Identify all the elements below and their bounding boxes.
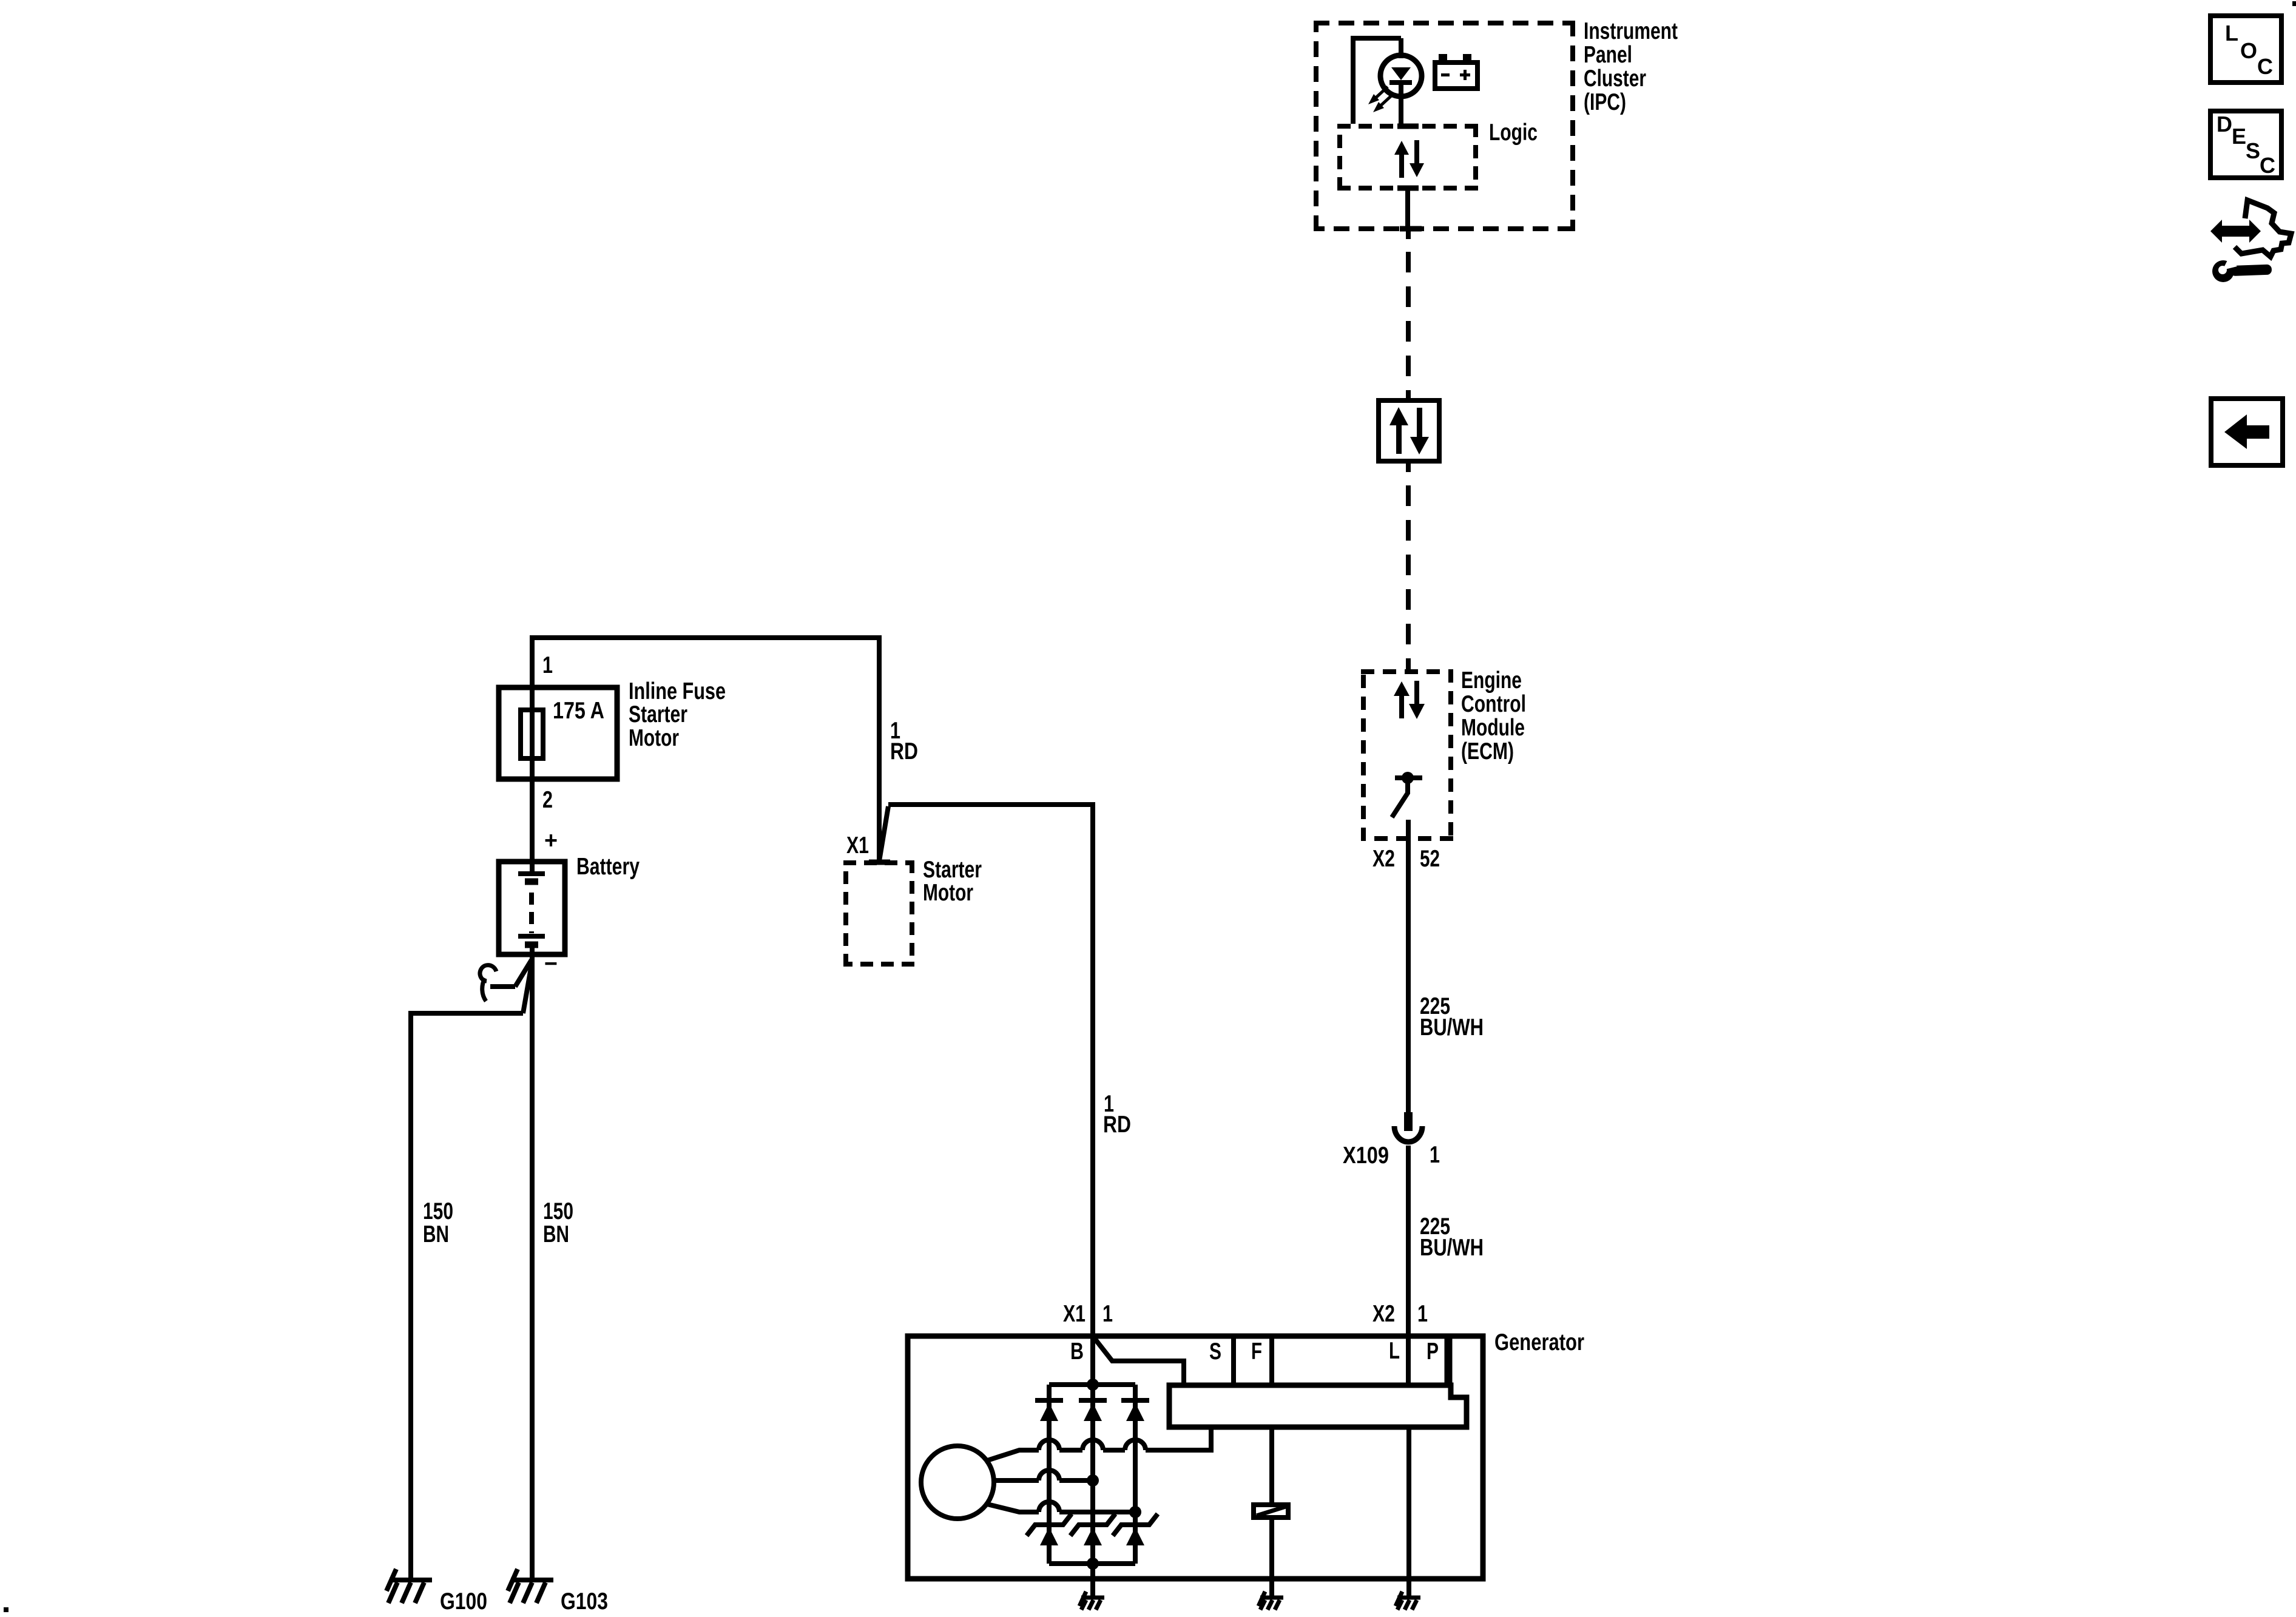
- svg-text:F: F: [1251, 1338, 1262, 1365]
- zener diode Z3 bar with bent ends: [1113, 1514, 1158, 1536]
- serial data arrows inside ECM: [1394, 681, 1425, 719]
- terminal bar at Logic box top: [1397, 124, 1419, 129]
- module box: Engine Control Module (ECM), dashed outline: [1361, 669, 1453, 841]
- wire: 225 BU/WH from ECM X2-52 to connector X109: [1406, 820, 1411, 1113]
- nav icon: DESC letters: [2217, 112, 2275, 178]
- label: X1 1 pin labels at generator B: [1063, 1301, 1113, 1327]
- label: wire 1 RD upper: [890, 718, 918, 765]
- node: bottom bus junction: [1087, 1558, 1099, 1570]
- stator winding lead middle: [993, 1478, 1039, 1483]
- diode D3 cathode bar: [1121, 1398, 1149, 1403]
- rectifier column 1: [1047, 1385, 1052, 1564]
- label: 175 A: [553, 698, 604, 724]
- svg-text:175 A: 175 A: [553, 698, 604, 724]
- ground symbol under rectifier: [1079, 1592, 1104, 1610]
- wire: 225 BU/WH from X109 to generator X2-1: [1406, 1146, 1411, 1336]
- stator winding hump phase1 col1: [1039, 1440, 1059, 1450]
- label: Starter Motor: [923, 857, 982, 906]
- serial data arrows inside translator box: [1389, 407, 1429, 454]
- wire: phase1 between humps 2: [1103, 1448, 1125, 1453]
- label: wire 225 BU/WH upper: [1420, 993, 1484, 1041]
- wire: IPC internal loop left leg: [1353, 38, 1401, 124]
- diode D2 cathode bar: [1079, 1398, 1107, 1403]
- serial data arrows inside Logic box: [1394, 140, 1424, 178]
- svg-text:1: 1: [542, 652, 553, 678]
- svg-text:Battery: Battery: [576, 854, 640, 880]
- nav icon: LOC box: [2210, 16, 2281, 83]
- ECM driver switch: lever: [1392, 780, 1408, 817]
- indicator LED circle: [1380, 55, 1422, 96]
- terminal divider right of S: [1231, 1336, 1236, 1385]
- page corner mark top right: [2292, 1, 2296, 6]
- nav icon: connector outline shape: [2235, 200, 2291, 257]
- wire: run to generator B and down: [888, 805, 1093, 1336]
- svg-text:Starter: Starter: [629, 701, 687, 727]
- svg-text:C: C: [2257, 54, 2273, 79]
- wire: through fuse: [530, 687, 535, 874]
- nav icon: DESC box: [2210, 111, 2281, 178]
- rectifier top bus bar: [1049, 1382, 1135, 1387]
- ECM driver switch: junction dot: [1402, 772, 1414, 784]
- label: terminal B: [1070, 1338, 1084, 1365]
- wire: battery negative down to G103: [530, 954, 535, 1580]
- svg-text:52: 52: [1420, 846, 1440, 872]
- svg-text:Panel: Panel: [1584, 42, 1632, 68]
- wire: logic box to IPC edge: [1405, 188, 1410, 229]
- svg-text:Inline Fuse: Inline Fuse: [629, 678, 726, 704]
- diode D1 triangle: [1040, 1403, 1058, 1421]
- svg-text:(ECM): (ECM): [1461, 738, 1514, 765]
- rectifier column 2: [1090, 1385, 1095, 1564]
- label: X1 at starter motor: [846, 832, 869, 859]
- label: Generator: [1494, 1329, 1584, 1355]
- ground strap bar: [490, 984, 515, 989]
- svg-text:S: S: [2246, 138, 2260, 163]
- in-line connector X109: male pin: [1404, 1112, 1413, 1131]
- battery cell plates: [518, 874, 545, 945]
- rectifier bottom bus bar: [1049, 1561, 1135, 1566]
- label: wire 1 RD lower: [1103, 1091, 1131, 1138]
- zener diode Z2 bar with bent ends: [1070, 1514, 1115, 1536]
- node: phase3 col3 junction: [1129, 1506, 1141, 1518]
- svg-text:B: B: [1070, 1338, 1084, 1365]
- module box: Starter Motor, dashed outline: [843, 860, 914, 967]
- svg-text:1: 1: [1417, 1301, 1428, 1327]
- stator winding hump phase3 col1: [1039, 1502, 1059, 1512]
- indicator LED diode triangle and cathode bar: [1389, 67, 1412, 85]
- zener diode Z2 triangle: [1084, 1527, 1102, 1545]
- svg-text:C: C: [2260, 153, 2275, 178]
- rectifier column 3: [1133, 1385, 1138, 1564]
- diode D2 triangle: [1084, 1403, 1102, 1421]
- label: wire 150 BN right: [543, 1198, 573, 1247]
- zener diode Z3 triangle: [1126, 1527, 1144, 1545]
- stator winding lead bottom: [987, 1504, 1039, 1512]
- svg-text:G100: G100: [440, 1588, 487, 1615]
- wire: serial data link translator to ECM, dashed: [1406, 485, 1411, 669]
- svg-text:X2: X2: [1373, 846, 1395, 872]
- ground symbol under field coil: [1258, 1592, 1283, 1610]
- svg-text:Engine: Engine: [1461, 667, 1522, 694]
- sub box: Logic, dashed outline: [1337, 124, 1478, 191]
- wire stub below IPC: [1406, 229, 1411, 239]
- terminal divider right of F: [1269, 1336, 1274, 1385]
- svg-text:Cluster: Cluster: [1584, 66, 1646, 92]
- B sense switch lever to regulator: [1095, 1338, 1184, 1385]
- diode D1 cathode bar: [1035, 1398, 1063, 1403]
- wire: field coil to ground: [1269, 1517, 1274, 1598]
- svg-text:Generator: Generator: [1494, 1329, 1584, 1355]
- in-line connector X109: female cup: [1394, 1126, 1422, 1142]
- label: Battery: [576, 854, 640, 880]
- LED light ray arrows: [1372, 87, 1393, 109]
- nav icon: harness-to-tools double arrow: [2210, 220, 2261, 243]
- svg-text:BN: BN: [423, 1221, 449, 1247]
- wire: battery feed top run: [532, 638, 879, 861]
- wire: serial data link IPC to translator box, dashed: [1406, 252, 1411, 398]
- label: wire 225 BU/WH lower: [1420, 1214, 1484, 1261]
- nav icon: wrench: [2212, 260, 2272, 282]
- label: Logic: [1489, 120, 1538, 146]
- svg-text:150: 150: [543, 1198, 573, 1224]
- svg-text:X109: X109: [1343, 1143, 1389, 1169]
- svg-text:(IPC): (IPC): [1584, 89, 1626, 115]
- battery box: [499, 862, 565, 954]
- svg-text:O: O: [2240, 38, 2257, 63]
- wire: phase2 to col2: [1059, 1478, 1093, 1483]
- label: battery minus: [544, 951, 558, 977]
- node: B junction on top bus: [1087, 1379, 1099, 1391]
- svg-text:Module: Module: [1461, 715, 1525, 741]
- wire: B terminal into rectifier bridge: [1090, 1336, 1095, 1385]
- wire stub below translator box: [1406, 464, 1411, 472]
- svg-text:Motor: Motor: [923, 880, 973, 906]
- ground G100 symbol: [387, 1569, 432, 1603]
- label: battery plus: [544, 828, 558, 854]
- ground strap diagonal to battery negative: [515, 960, 532, 987]
- wire: phase1 to regulator sense: [1146, 1427, 1211, 1450]
- label: terminal S: [1209, 1338, 1221, 1365]
- svg-text:2: 2: [542, 787, 553, 813]
- battery telltale symbol in IPC: [1435, 62, 1477, 89]
- svg-text:Motor: Motor: [629, 725, 679, 751]
- serial data translator box: [1379, 400, 1439, 461]
- svg-text:RD: RD: [1103, 1112, 1131, 1138]
- svg-text:−: −: [544, 951, 558, 977]
- svg-text:BU/WH: BU/WH: [1420, 1014, 1484, 1041]
- svg-text:Logic: Logic: [1489, 120, 1538, 146]
- inline fuse block box: [499, 687, 617, 779]
- wire: LED anode lead: [1399, 38, 1403, 58]
- svg-text:X1: X1: [1063, 1301, 1086, 1327]
- zener diode Z1 bar with bent ends: [1027, 1514, 1072, 1536]
- label: G100: [440, 1588, 487, 1615]
- wire: branch diagonal from starter X1 to generator feed: [879, 806, 888, 861]
- label: wire 150 BN left: [423, 1198, 453, 1247]
- label: Engine Control Module (ECM): [1461, 667, 1526, 765]
- label: X2 1 pin labels at generator: [1373, 1301, 1428, 1327]
- wire: branch diagonal to left ground run: [523, 961, 532, 1013]
- wire: LED cathode lead to logic box: [1399, 85, 1403, 126]
- zener diode Z1 triangle: [1040, 1527, 1058, 1545]
- module box: Instrument Panel Cluster (IPC), dashed outline: [1314, 21, 1575, 231]
- label: fuse pin 1: [542, 652, 553, 678]
- svg-text:X1: X1: [846, 832, 869, 859]
- svg-text:D: D: [2217, 112, 2232, 137]
- diode D3 triangle: [1126, 1403, 1144, 1421]
- svg-text:Starter: Starter: [923, 857, 982, 883]
- field relay coil diagonal: [1257, 1507, 1286, 1516]
- terminal bar at starter motor X1: [869, 860, 890, 865]
- label: Instrument Panel Cluster (IPC): [1584, 18, 1678, 115]
- wire: L circuit from regulator to ground: [1406, 1427, 1411, 1598]
- label: terminal L: [1389, 1338, 1400, 1364]
- svg-text:X2: X2: [1373, 1301, 1395, 1327]
- svg-text:RD: RD: [890, 738, 918, 765]
- nav icon: LOC letters: [2225, 21, 2273, 79]
- terminal bar at IPC box bottom: [1400, 226, 1422, 232]
- svg-text:1: 1: [1430, 1142, 1440, 1168]
- svg-text:Instrument: Instrument: [1584, 18, 1678, 44]
- ground strap clamp symbol: [480, 965, 496, 981]
- node: phase2 col2 junction: [1087, 1474, 1099, 1487]
- label: terminal P: [1427, 1338, 1439, 1365]
- svg-text:150: 150: [423, 1198, 453, 1224]
- wire: bottom bus to ground: [1090, 1564, 1095, 1598]
- ground G103 symbol: [508, 1569, 553, 1603]
- svg-text:1: 1: [1102, 1301, 1113, 1327]
- label: terminal F: [1251, 1338, 1262, 1365]
- page corner mark bottom left: [4, 1607, 8, 1612]
- svg-text:L: L: [1389, 1338, 1400, 1364]
- svg-text:Control: Control: [1461, 691, 1526, 717]
- svg-text:S: S: [1209, 1338, 1221, 1365]
- svg-text:BU/WH: BU/WH: [1420, 1235, 1484, 1261]
- stator winding lead top: [987, 1450, 1039, 1460]
- label: X2 52 pin labels at ECM: [1373, 846, 1440, 872]
- wire: phase3 to col3: [1059, 1510, 1135, 1514]
- wire: left ground run to G100: [411, 1013, 523, 1580]
- nav icon: back arrow: [2224, 414, 2269, 449]
- field relay coil box: [1254, 1505, 1288, 1517]
- label: G103: [561, 1588, 608, 1615]
- ECM driver switch: pivot bar: [1395, 775, 1422, 780]
- fuse element: [521, 710, 543, 758]
- voltage regulator bar: [1169, 1385, 1467, 1427]
- wire: phase1 between humps: [1059, 1448, 1082, 1453]
- wire: L terminal into regulator: [1406, 1336, 1411, 1385]
- svg-text:BN: BN: [543, 1221, 569, 1247]
- module box: Generator: [908, 1336, 1483, 1579]
- rotor circle: [921, 1446, 994, 1519]
- ground symbol under L circuit: [1396, 1592, 1420, 1610]
- svg-text:P: P: [1427, 1338, 1439, 1365]
- stator winding hump phase1 col3: [1125, 1440, 1146, 1450]
- nav icon: back arrow box: [2211, 399, 2283, 465]
- label: fuse pin 2: [542, 787, 553, 813]
- stator winding hump phase1 col2: [1082, 1440, 1103, 1450]
- svg-text:G103: G103: [561, 1588, 608, 1615]
- terminal bar at Logic box bottom: [1397, 186, 1419, 191]
- terminal divider right of P: [1445, 1336, 1453, 1385]
- label: Inline Fuse Starter Motor: [629, 678, 726, 751]
- stator winding hump phase2 col1: [1039, 1470, 1059, 1480]
- svg-text:E: E: [2232, 124, 2246, 149]
- svg-text:L: L: [2225, 21, 2238, 46]
- label: X109 and cavity 1: [1343, 1142, 1440, 1169]
- wire: F terminal from regulator to field coil: [1269, 1427, 1274, 1502]
- svg-text:+: +: [544, 828, 558, 854]
